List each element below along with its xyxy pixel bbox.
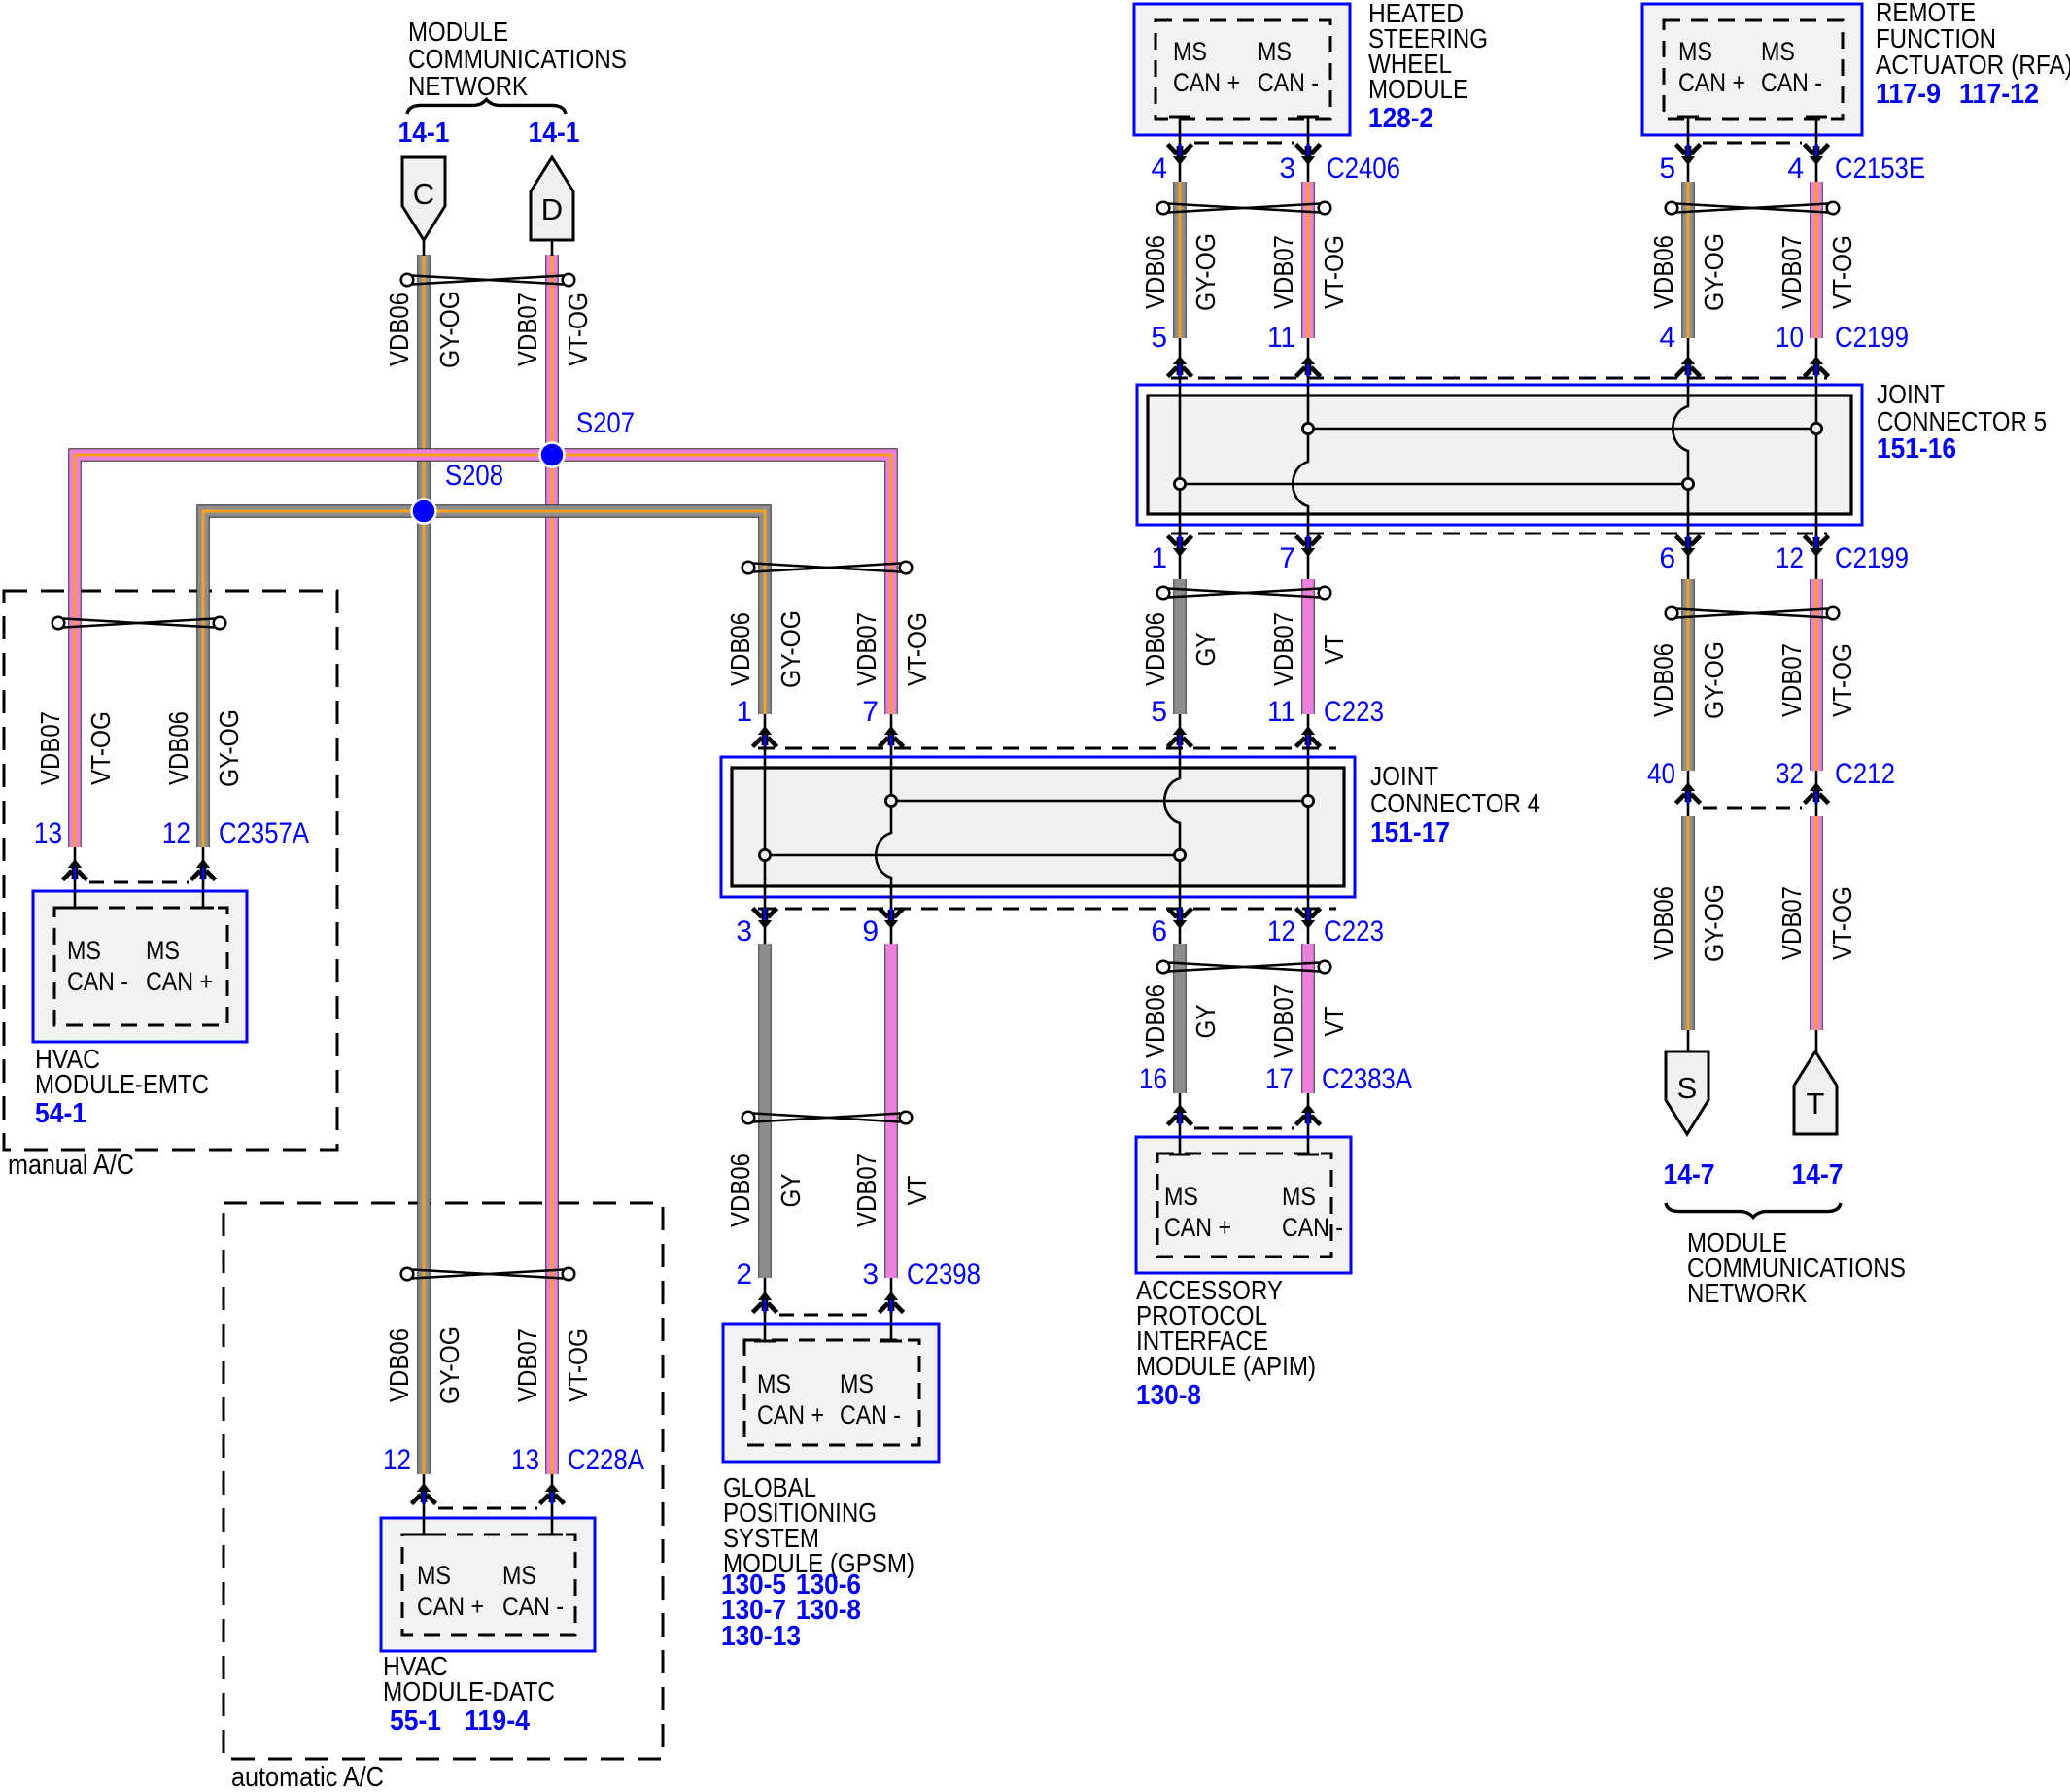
twisted pair symbol (HSWM pair) (1157, 202, 1331, 215)
twisted pair symbol (JC5-JC4 pair) (1157, 587, 1331, 600)
pin 17 (C2383A) (1265, 1063, 1294, 1095)
svg-text:C228A: C228A (568, 1444, 644, 1476)
svg-text:VDB07: VDB07 (1777, 235, 1807, 309)
pin 7 (JC4 top) (862, 696, 879, 728)
wire label VDB07 VT-OG (JC4 pin7 drop) (851, 612, 932, 686)
wire VDB06 GY from JC5 pin 1 to JC4 pin 5 (1173, 579, 1187, 714)
svg-text:GY-OG: GY-OG (434, 1327, 465, 1404)
pin 5 (JC5 top) (1151, 322, 1167, 354)
svg-text:VDB07: VDB07 (512, 293, 542, 366)
svg-text:130-8: 130-8 (1136, 1380, 1201, 1411)
svg-text:VDB06: VDB06 (384, 293, 414, 366)
svg-text:C212: C212 (1835, 758, 1895, 790)
JC4 internal bus: wire 4 line (1307, 757, 1310, 897)
svg-text:CAN -: CAN - (67, 967, 128, 996)
module APIM (1136, 1137, 1351, 1273)
splice S208 (412, 460, 504, 524)
svg-text:3: 3 (1279, 153, 1295, 185)
wire label VDB06 GY-OG (C drop) (384, 291, 465, 368)
svg-text:C: C (413, 177, 434, 211)
wire label VDB06 GY (GPSM) (725, 1154, 806, 1227)
svg-text:JOINT: JOINT (1877, 379, 1945, 409)
svg-text:NETWORK: NETWORK (408, 71, 528, 101)
svg-text:MS: MS (1761, 37, 1795, 66)
label HEATED STEERING WHEEL MODULE 128-2 (1368, 0, 1488, 134)
page ref 14-1 (C) (398, 118, 450, 149)
svg-text:4: 4 (1151, 153, 1167, 185)
svg-text:CAN -: CAN - (1258, 68, 1319, 97)
svg-text:6: 6 (1151, 915, 1167, 948)
svg-text:VDB07: VDB07 (512, 1328, 542, 1402)
svg-text:151-17: 151-17 (1370, 817, 1450, 848)
joint connector 4 box (721, 757, 1355, 897)
svg-text:117-12: 117-12 (1959, 79, 2039, 110)
brace under connectors S and T (1666, 1203, 1841, 1218)
label MODULE COMMUNICATIONS NETWORK (top) (408, 17, 627, 101)
svg-text:VDB06: VDB06 (1648, 235, 1678, 309)
svg-text:11: 11 (1267, 322, 1295, 354)
svg-text:MS: MS (502, 1561, 536, 1590)
svg-text:40: 40 (1647, 758, 1675, 790)
wire VDB06 GY from JC4 pin 6 to APIM pin 16 (1173, 944, 1187, 1093)
JC4 internal bus: wire 2 line with hop (876, 757, 891, 897)
svg-text:VDB06: VDB06 (1140, 235, 1170, 309)
svg-text:151-16: 151-16 (1877, 433, 1956, 465)
svg-text:VDB06: VDB06 (1140, 612, 1170, 686)
svg-text:MS: MS (840, 1369, 874, 1398)
connector arrows into JC4 top-right (1168, 714, 1321, 757)
svg-text:S208: S208 (445, 460, 503, 492)
connector label C212 (1835, 758, 1895, 790)
svg-text:VT-OG: VT-OG (902, 612, 932, 686)
wire VDB06 GY-OG from RFA pin 5 to JC5 pin 4 (1681, 182, 1695, 338)
connector label C223 (bottom) (1324, 915, 1384, 948)
wire label VDB06 GY-OG (EMTC right) (163, 709, 244, 787)
twisted pair symbol (C/D) (401, 274, 575, 287)
svg-text:7: 7 (862, 696, 879, 728)
svg-text:14-7: 14-7 (1664, 1159, 1715, 1190)
svg-text:ACTUATOR (RFA): ACTUATOR (RFA) (1876, 50, 2070, 80)
svg-text:2: 2 (736, 1258, 752, 1291)
pin 1 (JC4 top) (736, 696, 752, 728)
svg-text:VT: VT (1319, 635, 1349, 665)
brace over connectors C and D (407, 100, 566, 115)
pin 2 (C2398) (736, 1258, 752, 1291)
svg-text:GY: GY (1190, 1004, 1221, 1038)
module REMOTE FUNCTION ACTUATOR (1642, 4, 1862, 135)
dashed region box "manual A/C" (4, 591, 337, 1150)
svg-text:117-9: 117-9 (1876, 79, 1941, 110)
pin 13 (C228A) (511, 1444, 539, 1476)
twisted pair symbol (GPSM pair) (742, 1112, 913, 1124)
wire VDB06 GY-OG from HSWM pin 4 to JC5 pin 5 (1173, 182, 1187, 338)
svg-text:CAN +: CAN + (146, 967, 213, 996)
pin 1 (JC5 bottom) (1151, 542, 1167, 574)
wire VDB07 VT from JC4 pin 9 to GPSM pin 3 (884, 944, 898, 1278)
pin 13 (C2357A) (34, 817, 62, 849)
svg-text:130-13: 130-13 (721, 1621, 801, 1652)
svg-text:MODULE-EMTC: MODULE-EMTC (35, 1069, 209, 1099)
svg-text:CAN +: CAN + (417, 1592, 484, 1621)
wire label VDB06 GY-OG (DATC left) (384, 1327, 465, 1404)
connector label C2199 (top) (1835, 322, 1909, 354)
label JOINT CONNECTOR 5 151-16 (1877, 379, 2047, 465)
wire label VDB06 GY-OG (HSWM) (1140, 233, 1221, 311)
svg-text:GY-OG: GY-OG (1190, 233, 1221, 311)
wire label VDB07 VT (APIM) (1268, 984, 1349, 1058)
svg-text:C2383A: C2383A (1322, 1063, 1412, 1095)
wire VDB07 VT-OG bus: HVAC MODULE-EMTC pin 13 up, across through S207, down to JOINT CONNECTOR 4 pin 7 (75, 455, 891, 847)
svg-text:11: 11 (1267, 696, 1295, 728)
wire VDB06 GY from JC4 pin 3 to GPSM pin 2 (758, 944, 772, 1278)
svg-text:GY-OG: GY-OG (1699, 641, 1729, 719)
pin 11 (C223 top) (1267, 696, 1295, 728)
connector label C228A (568, 1444, 644, 1476)
connector arrows into JC5 top-left (1168, 338, 1321, 385)
svg-text:10: 10 (1776, 322, 1804, 354)
twisted pair symbol (DATC pair) (401, 1268, 575, 1281)
svg-text:VT-OG: VT-OG (1319, 235, 1349, 309)
svg-text:CAN +: CAN + (1164, 1213, 1231, 1242)
svg-text:CAN -: CAN - (840, 1400, 901, 1430)
svg-text:C223: C223 (1324, 696, 1384, 728)
svg-text:C223: C223 (1324, 915, 1384, 948)
svg-text:12: 12 (1776, 542, 1804, 574)
connector arrows C2357A (63, 847, 216, 891)
pin 3 (C2406) (1279, 153, 1295, 185)
wire VDB07 VT-OG from JC5 pin 12 to C212 pin 32 (1810, 579, 1823, 771)
pin 3 (C2398) (862, 1258, 879, 1291)
module HVAC MODULE-DATC (381, 1518, 595, 1651)
svg-text:MODULE-DATC: MODULE-DATC (383, 1676, 555, 1706)
svg-text:MODULE: MODULE (1368, 74, 1468, 104)
svg-text:C2398: C2398 (907, 1258, 981, 1291)
joint connector 5 box (1137, 385, 1862, 525)
JC5 internal lower bus line (GY) (1174, 478, 1693, 489)
pin 4 (C2406) (1151, 153, 1167, 185)
svg-text:VDB07: VDB07 (1268, 235, 1298, 309)
wire label VDB06 GY-OG (below C212) (1648, 884, 1729, 962)
twisted pair symbol (JC4 left pair) (742, 562, 913, 574)
svg-text:MS: MS (417, 1561, 451, 1590)
svg-text:VT: VT (902, 1176, 932, 1206)
pin 5 (C223 top) (1151, 696, 1167, 728)
svg-text:13: 13 (511, 1444, 539, 1476)
pin 12 (C228A) (383, 1444, 411, 1476)
svg-text:GY-OG: GY-OG (214, 709, 244, 787)
svg-text:12: 12 (383, 1444, 411, 1476)
svg-text:5: 5 (1659, 153, 1675, 185)
svg-text:32: 32 (1776, 758, 1804, 790)
svg-text:128-2: 128-2 (1368, 103, 1433, 134)
svg-text:GY-OG: GY-OG (1699, 884, 1729, 962)
svg-text:CAN -: CAN - (1761, 68, 1822, 97)
connector arrows out of JC5 bottom (1168, 525, 1829, 579)
svg-text:C2357A: C2357A (219, 817, 309, 849)
svg-text:12: 12 (162, 817, 190, 849)
svg-text:17: 17 (1265, 1063, 1294, 1095)
connector dashed boundary above JC4 (758, 747, 1336, 750)
pin 7 (JC5 bottom) (1279, 542, 1295, 574)
svg-text:1: 1 (1151, 542, 1167, 574)
svg-text:MS: MS (757, 1369, 791, 1398)
pin 12 (C2357A) (162, 817, 190, 849)
wire label VDB07 VT-OG (HSWM) (1268, 235, 1349, 309)
pin 5 (C2153E) (1659, 153, 1675, 185)
label HVAC MODULE-EMTC 54-1 (35, 1044, 209, 1129)
wire label VDB06 GY (APIM) (1140, 984, 1221, 1058)
connector label C2357A (219, 817, 309, 849)
svg-text:automatic A/C: automatic A/C (231, 1762, 384, 1792)
svg-text:14-1: 14-1 (398, 118, 450, 149)
connector dashed boundary below JC4 (758, 908, 1336, 911)
svg-text:T: T (1807, 1086, 1825, 1120)
JC4 internal lower bus line (GY) (759, 849, 1185, 860)
wire label VDB07 VT (JC5-JC4) (1268, 612, 1349, 686)
wire label VDB07 VT-OG (DATC right) (512, 1328, 593, 1402)
connector arrows into JC5 top-right (1676, 338, 1829, 385)
pin 6 (C223 bottom) (1151, 915, 1167, 948)
svg-text:VDB06: VDB06 (163, 711, 193, 785)
JC5 internal bus: wire 1 line (1179, 385, 1182, 525)
connector label C2383A (1322, 1063, 1412, 1095)
svg-text:VDB06: VDB06 (1140, 984, 1170, 1058)
svg-text:5: 5 (1151, 322, 1167, 354)
svg-text:MS: MS (1282, 1182, 1316, 1211)
label manual A/C (8, 1150, 134, 1181)
module HEATED STEERING WHEEL MODULE (1134, 4, 1350, 135)
svg-text:MODULE (APIM): MODULE (APIM) (1136, 1351, 1316, 1381)
wire label VDB07 VT-OG (RFA) (1777, 235, 1857, 309)
svg-text:MS: MS (146, 936, 180, 965)
label automatic A/C (231, 1762, 384, 1792)
svg-text:GY-OG: GY-OG (434, 291, 465, 368)
connector arrows out of JC4 bottom (753, 897, 1321, 944)
svg-text:VDB07: VDB07 (851, 612, 881, 686)
wire label VDB07 VT-OG (above C212) (1777, 643, 1857, 717)
wire label VDB06 GY (JC5-JC4) (1140, 612, 1221, 686)
pin 9 (JC4 bottom) (862, 915, 879, 948)
wire VDB06 GY-OG from C212 pin 40 to connector S (1681, 816, 1695, 1030)
label HVAC MODULE-DATC 55-1 119-4 (383, 1651, 555, 1737)
connector arrows C228A (412, 1474, 565, 1518)
wire label VDB06 GY-OG (RFA) (1648, 233, 1729, 311)
svg-text:CONNECTOR 5: CONNECTOR 5 (1877, 406, 2047, 436)
svg-text:VDB07: VDB07 (1777, 886, 1807, 960)
svg-text:VT-OG: VT-OG (1827, 886, 1857, 960)
svg-text:9: 9 (862, 915, 879, 948)
svg-text:CAN +: CAN + (757, 1400, 824, 1430)
svg-text:VT-OG: VT-OG (1827, 643, 1857, 717)
wire VDB06 GY-OG from JC5 pin 6 to C212 pin 40 (1681, 579, 1695, 771)
off-page connector C (402, 157, 445, 256)
svg-text:6: 6 (1659, 542, 1675, 574)
wire label VDB07 VT-OG (D drop) (512, 293, 593, 366)
svg-text:MS: MS (1258, 37, 1292, 66)
label MODULE COMMUNICATIONS NETWORK (bottom) (1687, 1227, 1906, 1308)
connector arrows C212 (1676, 771, 1829, 816)
svg-text:GY: GY (776, 1173, 806, 1207)
svg-text:4: 4 (1659, 322, 1675, 354)
svg-text:VDB07: VDB07 (1777, 643, 1807, 717)
svg-text:5: 5 (1151, 696, 1167, 728)
off-page connector T (1794, 1030, 1837, 1134)
label ACCESSORY PROTOCOL INTERFACE MODULE (APIM) 130-8 (1136, 1275, 1316, 1411)
svg-text:C2153E: C2153E (1835, 153, 1925, 185)
JC4 internal bus: wire 1 line (764, 757, 767, 897)
JC5 internal bus: wire 4 line (1815, 385, 1818, 525)
connector arrows into JC4 top-left (753, 714, 904, 757)
svg-text:CAN -: CAN - (1282, 1213, 1343, 1242)
connector dashed boundary above JC5 (1171, 377, 1827, 380)
svg-text:GY-OG: GY-OG (776, 610, 806, 688)
twisted pair symbol (APIM pair) (1157, 961, 1331, 974)
splice S207 (540, 407, 636, 467)
wire VDB06 GY-OG from connector C down through S208 to HVAC MODULE-DATC pin 12 (417, 255, 431, 1474)
svg-text:MS: MS (1173, 37, 1207, 66)
svg-text:VDB06: VDB06 (1648, 643, 1678, 717)
svg-text:S: S (1677, 1071, 1698, 1105)
wire VDB07 VT-OG from connector D down through S207 to HVAC MODULE-DATC pin 13 (545, 255, 559, 1474)
pin 12 (C223 bottom) (1267, 915, 1295, 948)
svg-text:13: 13 (34, 817, 62, 849)
pin 3 (JC4 bottom) (736, 915, 752, 948)
twisted pair symbol (C212 pair) (1666, 607, 1840, 620)
connector arrows C2406 (1168, 135, 1321, 182)
svg-text:S207: S207 (576, 407, 635, 439)
svg-text:VT-OG: VT-OG (1827, 235, 1857, 309)
svg-text:C2406: C2406 (1327, 153, 1400, 185)
wire VDB07 VT from JC4 pin 12 to APIM pin 17 (1301, 944, 1315, 1093)
connector label C2406 (1327, 153, 1400, 185)
connector arrows C2383A (1168, 1093, 1321, 1137)
wire label VDB07 VT-OG (EMTC left) (35, 711, 116, 785)
JC5 internal bus: wire 3 line with hop (1673, 385, 1688, 525)
pin 4 (C2153E) (1787, 153, 1804, 185)
svg-text:MS: MS (1678, 37, 1712, 66)
wire label VDB07 VT-OG (below C212) (1777, 886, 1857, 960)
svg-text:3: 3 (736, 915, 752, 948)
module GPSM (723, 1324, 939, 1462)
svg-text:D: D (541, 192, 563, 226)
svg-text:VDB07: VDB07 (851, 1154, 881, 1227)
svg-text:JOINT: JOINT (1370, 761, 1438, 791)
svg-text:VDB06: VDB06 (725, 612, 755, 686)
page ref 14-7 (S) (1664, 1159, 1715, 1190)
pin 6 (C2199 bottom) (1659, 542, 1675, 574)
connector label C2398 (907, 1258, 981, 1291)
wire VDB07 VT-OG from HSWM pin 3 to JC5 pin 11 (1301, 182, 1315, 338)
svg-text:1: 1 (736, 696, 752, 728)
svg-text:4: 4 (1787, 153, 1804, 185)
label GLOBAL POSITIONING SYSTEM MODULE (GPSM) (721, 1472, 914, 1652)
svg-text:130-8: 130-8 (796, 1595, 861, 1626)
pin 12 (C2199 bottom) (1776, 542, 1804, 574)
twisted pair symbol (EMTC pair) (52, 617, 226, 630)
off-page connector S (1666, 1030, 1708, 1134)
svg-text:CAN +: CAN + (1173, 68, 1240, 97)
svg-text:16: 16 (1139, 1063, 1167, 1095)
svg-text:VDB06: VDB06 (384, 1328, 414, 1402)
svg-text:manual A/C: manual A/C (8, 1150, 134, 1181)
pin 40 (C212) (1647, 758, 1675, 790)
svg-text:CAN +: CAN + (1678, 68, 1745, 97)
svg-text:54-1: 54-1 (35, 1098, 86, 1129)
connector arrows C2398 (753, 1278, 904, 1324)
wire VDB06 GY-OG bus: HVAC MODULE-EMTC pin 12 up, across through S208, down to JOINT CONNECTOR 4 pin 1 (203, 511, 765, 847)
svg-text:MODULE: MODULE (408, 17, 508, 47)
svg-text:CONNECTOR 4: CONNECTOR 4 (1370, 788, 1540, 818)
JC5 internal bus: wire 2 line with hop (1293, 385, 1308, 525)
connector arrows C2153E (1676, 135, 1829, 182)
svg-text:VDB07: VDB07 (35, 711, 65, 785)
svg-text:NETWORK: NETWORK (1687, 1278, 1807, 1308)
svg-text:C2199: C2199 (1835, 542, 1909, 574)
wire VDB07 VT-OG from RFA pin 4 to JC5 pin 10 (1810, 182, 1823, 338)
JC4 internal bus: wire 3 line with hop (1164, 757, 1180, 897)
label REMOTE FUNCTION ACTUATOR (RFA) 117-9 117-12 (1876, 0, 2070, 110)
svg-text:14-1: 14-1 (529, 118, 580, 149)
svg-text:12: 12 (1267, 915, 1295, 948)
pin 11 (JC5 top) (1267, 322, 1295, 354)
svg-text:VDB07: VDB07 (1268, 984, 1298, 1058)
svg-text:GY-OG: GY-OG (1699, 233, 1729, 311)
svg-text:55-1: 55-1 (390, 1706, 441, 1737)
connector label C223 (top) (1324, 696, 1384, 728)
page ref 14-7 (T) (1792, 1159, 1844, 1190)
svg-text:VDB07: VDB07 (1268, 612, 1298, 686)
svg-text:VDB06: VDB06 (725, 1154, 755, 1227)
svg-text:7: 7 (1279, 542, 1295, 574)
svg-text:VT: VT (1319, 1007, 1349, 1037)
page ref 14-1 (D) (529, 118, 580, 149)
svg-text:MS: MS (67, 936, 101, 965)
off-page connector D (531, 157, 573, 256)
wire label VDB06 GY-OG (JC4 pin1 drop) (725, 610, 806, 688)
svg-text:VT-OG: VT-OG (563, 293, 593, 366)
svg-text:3: 3 (862, 1258, 879, 1291)
JC4 internal upper bus line (VT) (885, 795, 1313, 806)
connector label C2199 (bottom) (1835, 542, 1909, 574)
svg-text:VDB06: VDB06 (1648, 886, 1678, 960)
svg-text:119-4: 119-4 (465, 1706, 530, 1737)
svg-text:COMMUNICATIONS: COMMUNICATIONS (408, 44, 627, 74)
svg-text:C2199: C2199 (1835, 322, 1909, 354)
svg-text:VT-OG: VT-OG (86, 711, 116, 785)
pin 4 (C2199 top) (1659, 322, 1675, 354)
pin 16 (C2383A) (1139, 1063, 1167, 1095)
svg-text:CAN -: CAN - (502, 1592, 564, 1621)
wire label VDB07 VT (GPSM) (851, 1154, 932, 1227)
wire label VDB06 GY-OG (above C212) (1648, 641, 1729, 719)
pin 32 (C212) (1776, 758, 1804, 790)
label JOINT CONNECTOR 4 151-17 (1370, 761, 1540, 848)
svg-text:VT-OG: VT-OG (563, 1328, 593, 1402)
wire VDB07 VT from JC5 pin 7 to JC4 pin 11 (1301, 579, 1315, 714)
svg-text:GY: GY (1190, 632, 1221, 666)
twisted pair symbol (RFA pair) (1666, 202, 1840, 215)
svg-text:14-7: 14-7 (1792, 1159, 1844, 1190)
connector label C2153E (1835, 153, 1925, 185)
connector dashed boundary below JC5 (1171, 533, 1827, 535)
pin 10 (C2199 top) (1776, 322, 1804, 354)
dashed region box "automatic A/C" (224, 1203, 663, 1759)
JC5 internal upper bus line (VT) (1302, 423, 1821, 433)
wire VDB07 VT-OG from C212 pin 32 to connector T (1810, 816, 1823, 1030)
module HVAC MODULE-EMTC (33, 891, 247, 1042)
svg-text:MS: MS (1164, 1182, 1198, 1211)
